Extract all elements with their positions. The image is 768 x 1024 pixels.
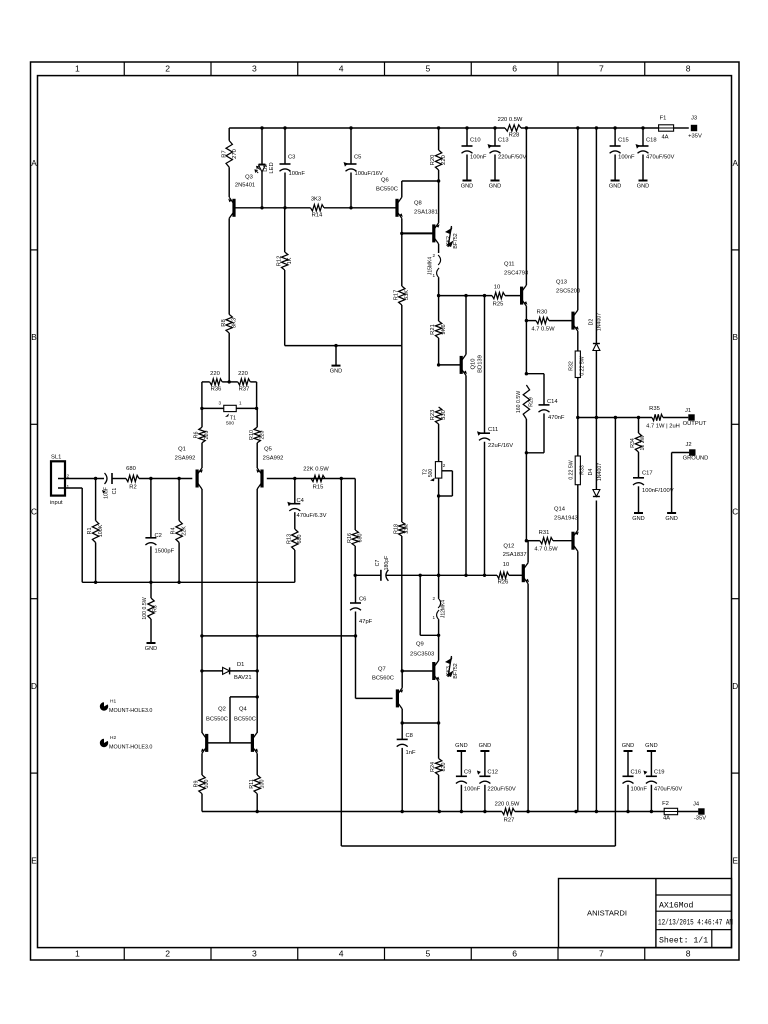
svg-text:100K: 100K [98, 524, 104, 537]
svg-text:100nF: 100nF [289, 171, 306, 177]
svg-text:R13: R13 [286, 534, 292, 544]
svg-text:180pF: 180pF [384, 556, 390, 571]
svg-text:R33: R33 [580, 465, 586, 475]
svg-text:10 2W: 10 2W [640, 435, 646, 450]
svg-text:BAV21: BAV21 [234, 675, 252, 681]
svg-text:1500pF: 1500pF [155, 549, 175, 555]
svg-text:220 0.5W: 220 0.5W [498, 117, 523, 123]
svg-text:680: 680 [358, 534, 364, 543]
svg-text:R21: R21 [430, 324, 436, 335]
svg-text:220uF/50V: 220uF/50V [487, 787, 515, 793]
svg-text:C8: C8 [406, 733, 413, 739]
svg-text:R7: R7 [222, 150, 228, 157]
svg-text:2: 2 [443, 463, 446, 468]
svg-text:2SC3503: 2SC3503 [410, 652, 434, 658]
svg-text:Q3: Q3 [245, 175, 253, 181]
svg-text:GND: GND [461, 184, 473, 190]
svg-text:B: B [732, 333, 738, 342]
svg-text:Q2: Q2 [218, 707, 226, 713]
svg-text:C2: C2 [155, 533, 162, 539]
svg-text:0.22 5W: 0.22 5W [569, 460, 575, 479]
svg-text:A: A [31, 159, 37, 168]
svg-text:160 0.5W: 160 0.5W [516, 391, 522, 413]
svg-text:Q14: Q14 [554, 507, 566, 513]
svg-text:Q8: Q8 [414, 201, 422, 207]
svg-text:R31: R31 [539, 530, 550, 536]
svg-text:BC550C: BC550C [376, 187, 398, 193]
svg-text:AX16Mod: AX16Mod [659, 901, 693, 911]
svg-text:4.7 0.5W: 4.7 0.5W [531, 327, 555, 333]
svg-text:1K: 1K [287, 257, 293, 264]
svg-text:Q5: Q5 [264, 447, 272, 453]
svg-text:680: 680 [297, 535, 303, 544]
svg-text:3K3: 3K3 [231, 318, 237, 328]
svg-text:12/13/2015 4:46:47 AM: 12/13/2015 4:46:47 AM [658, 920, 733, 928]
svg-text:GND: GND [145, 646, 157, 652]
svg-text:GND: GND [632, 516, 644, 522]
svg-text:R11: R11 [249, 779, 255, 789]
svg-text:22uF/16V: 22uF/16V [488, 443, 513, 449]
svg-text:4A: 4A [661, 135, 668, 141]
svg-text:220: 220 [259, 431, 265, 440]
svg-text:100: 100 [259, 780, 265, 789]
svg-text:100: 100 [204, 780, 210, 789]
svg-text:7: 7 [599, 949, 604, 959]
svg-text:5: 5 [425, 949, 430, 959]
svg-text:BC550C: BC550C [206, 717, 228, 723]
svg-text:R36: R36 [211, 387, 222, 393]
svg-text:SL1: SL1 [51, 455, 61, 461]
svg-text:2SA992: 2SA992 [263, 456, 284, 462]
svg-text:R27: R27 [504, 818, 515, 824]
svg-text:330: 330 [441, 410, 447, 420]
svg-text:100nF: 100nF [464, 787, 481, 793]
svg-text:3: 3 [252, 64, 257, 74]
svg-text:C3: C3 [288, 155, 295, 161]
svg-text:R18: R18 [394, 524, 400, 534]
svg-text:1: 1 [67, 484, 70, 490]
svg-text:220: 220 [210, 371, 220, 377]
svg-text:R10: R10 [249, 430, 255, 440]
svg-text:C16: C16 [631, 770, 642, 776]
svg-text:R6: R6 [194, 432, 200, 439]
svg-text:6: 6 [512, 949, 517, 959]
svg-text:470uF/50V: 470uF/50V [654, 787, 682, 793]
svg-text:8: 8 [686, 949, 691, 959]
svg-text:MOUNT-HOLE3.0: MOUNT-HOLE3.0 [109, 745, 152, 751]
svg-text:C5: C5 [354, 155, 361, 161]
svg-text:2N5401: 2N5401 [235, 183, 255, 189]
svg-text:Q13: Q13 [556, 280, 567, 286]
svg-text:220: 220 [238, 371, 248, 377]
svg-text:2: 2 [432, 596, 435, 601]
svg-text:R25: R25 [493, 302, 504, 308]
svg-text:C14: C14 [547, 399, 558, 405]
svg-text:1N4007: 1N4007 [597, 463, 603, 481]
svg-text:+35V: +35V [688, 134, 702, 140]
svg-text:C18: C18 [646, 138, 657, 144]
svg-text:33K: 33K [404, 524, 410, 534]
svg-text:A: A [732, 159, 738, 168]
svg-text:R14: R14 [312, 213, 323, 219]
svg-text:100nF: 100nF [470, 155, 487, 161]
svg-text:-35V: -35V [694, 816, 706, 822]
svg-text:R17: R17 [394, 290, 400, 301]
svg-text:GND: GND [645, 743, 657, 749]
svg-text:2SA1943: 2SA1943 [554, 516, 578, 522]
svg-text:R15: R15 [313, 485, 324, 491]
svg-text:R3: R3 [153, 605, 159, 612]
svg-text:D2: D2 [588, 319, 594, 326]
svg-text:2SC4793: 2SC4793 [504, 271, 528, 277]
svg-text:R29: R29 [529, 397, 535, 407]
svg-text:KK3: KK3 [446, 666, 452, 676]
svg-text:100uF/16V: 100uF/16V [355, 171, 383, 177]
svg-text:C: C [732, 508, 738, 517]
svg-text:J12MK4: J12MK4 [441, 600, 447, 619]
svg-text:GND: GND [479, 743, 491, 749]
svg-text:F1: F1 [660, 116, 667, 122]
svg-text:5: 5 [425, 64, 430, 74]
svg-text:R9: R9 [194, 781, 200, 788]
svg-text:Q6: Q6 [381, 178, 389, 184]
svg-text:GND: GND [665, 516, 677, 522]
svg-text:100 0.5W: 100 0.5W [142, 597, 148, 619]
svg-text:33K: 33K [404, 290, 410, 300]
svg-text:E: E [31, 856, 37, 865]
svg-text:C13: C13 [498, 138, 509, 144]
svg-text:BC560C: BC560C [372, 676, 394, 682]
svg-text:MOUNT-HOLE3.0: MOUNT-HOLE3.0 [109, 708, 152, 714]
svg-text:C11: C11 [488, 427, 498, 433]
svg-text:R23: R23 [430, 410, 436, 421]
svg-text:GND: GND [609, 184, 621, 190]
svg-text:R4: R4 [171, 528, 177, 535]
svg-text:680: 680 [126, 466, 136, 472]
svg-text:Q12: Q12 [503, 544, 514, 550]
svg-text:H2: H2 [110, 735, 116, 741]
svg-text:820: 820 [441, 763, 447, 772]
svg-text:J3: J3 [691, 116, 697, 122]
svg-text:J15MK4: J15MK4 [428, 257, 434, 276]
svg-text:1N4007: 1N4007 [596, 313, 602, 331]
svg-text:220 0.5W: 220 0.5W [495, 802, 520, 808]
svg-text:2: 2 [165, 64, 170, 74]
svg-text:220: 220 [204, 431, 210, 440]
svg-text:C12: C12 [487, 770, 498, 776]
svg-text:D: D [31, 682, 37, 691]
svg-text:R32: R32 [569, 361, 575, 371]
svg-text:R12: R12 [277, 256, 283, 267]
svg-text:C6: C6 [359, 597, 366, 603]
svg-text:500: 500 [226, 421, 234, 427]
svg-text:F2: F2 [662, 801, 669, 807]
svg-text:D1: D1 [237, 662, 244, 668]
svg-text:Q7: Q7 [378, 667, 386, 673]
svg-text:R37: R37 [239, 387, 250, 393]
svg-text:R34: R34 [630, 438, 636, 448]
svg-text:C7: C7 [375, 560, 381, 567]
svg-text:220uF/50V: 220uF/50V [498, 155, 526, 161]
svg-text:B: B [31, 333, 37, 342]
svg-text:D4: D4 [588, 469, 594, 476]
svg-text:4.7 0.5W: 4.7 0.5W [534, 547, 558, 553]
svg-text:4.7 1W | 2uH: 4.7 1W | 2uH [646, 424, 680, 430]
svg-text:BC550C: BC550C [234, 717, 256, 723]
svg-text:GROUND: GROUND [683, 456, 709, 462]
svg-text:10uF: 10uF [104, 487, 110, 499]
svg-text:1: 1 [75, 949, 80, 959]
svg-text:BF752: BF752 [453, 233, 459, 248]
svg-text:100nF: 100nF [631, 787, 648, 793]
svg-text:R24: R24 [430, 762, 436, 772]
svg-text:2SA1837: 2SA1837 [503, 552, 527, 558]
svg-text:GND: GND [330, 369, 342, 375]
svg-text:2SA992: 2SA992 [175, 456, 196, 462]
svg-text:22K 0.5W: 22K 0.5W [303, 467, 329, 473]
svg-text:R35: R35 [649, 406, 660, 412]
svg-text:10: 10 [494, 285, 500, 291]
svg-text:C15: C15 [618, 138, 629, 144]
svg-text:220: 220 [441, 155, 447, 165]
svg-text:Sheet: 1/1: Sheet: 1/1 [659, 936, 708, 946]
svg-text:1nF: 1nF [406, 750, 416, 756]
svg-text:Q1: Q1 [178, 447, 186, 453]
svg-text:270: 270 [232, 149, 238, 159]
svg-text:J2: J2 [685, 442, 691, 448]
svg-text:R26: R26 [498, 580, 509, 586]
svg-text:1: 1 [239, 401, 242, 406]
svg-text:4: 4 [339, 64, 344, 74]
svg-text:R16: R16 [347, 533, 353, 543]
svg-text:3: 3 [252, 949, 257, 959]
svg-text:0.22 5W: 0.22 5W [580, 356, 586, 375]
svg-text:R2: R2 [129, 485, 136, 491]
svg-text:GND: GND [489, 184, 501, 190]
svg-text:9K6: 9K6 [441, 324, 447, 334]
svg-text:4: 4 [339, 949, 344, 959]
svg-text:Q9: Q9 [416, 642, 424, 648]
svg-text:470nF: 470nF [548, 415, 565, 421]
svg-text:Q11: Q11 [504, 262, 515, 268]
svg-text:R30: R30 [537, 310, 548, 316]
svg-text:C17: C17 [642, 471, 653, 477]
svg-text:J4: J4 [693, 802, 700, 808]
svg-text:C4: C4 [297, 498, 305, 504]
svg-text:C1: C1 [112, 488, 118, 495]
svg-text:2: 2 [165, 949, 170, 959]
svg-text:47pF: 47pF [359, 619, 373, 625]
svg-text:R28: R28 [509, 133, 520, 139]
svg-text:ANISTARDI: ANISTARDI [587, 909, 627, 918]
svg-text:GND: GND [455, 743, 467, 749]
svg-text:E: E [732, 856, 738, 865]
svg-text:2SA1381: 2SA1381 [414, 210, 438, 216]
svg-text:3K3: 3K3 [311, 197, 321, 203]
svg-text:C9: C9 [464, 770, 471, 776]
svg-text:100nF: 100nF [618, 155, 635, 161]
svg-text:R8: R8 [221, 319, 227, 326]
svg-text:6: 6 [512, 64, 517, 74]
svg-text:22K: 22K [181, 526, 187, 536]
svg-text:2SC5200: 2SC5200 [556, 289, 580, 295]
svg-text:7: 7 [599, 64, 604, 74]
svg-text:100nF/100V: 100nF/100V [642, 488, 674, 494]
svg-text:BF752: BF752 [453, 663, 459, 678]
svg-text:3: 3 [218, 401, 221, 406]
svg-text:C19: C19 [654, 770, 665, 776]
svg-text:H1: H1 [110, 699, 116, 705]
svg-text:470uF/6.3V: 470uF/6.3V [297, 513, 327, 519]
svg-text:1: 1 [75, 64, 80, 74]
svg-text:4A: 4A [663, 816, 670, 822]
svg-text:10: 10 [503, 562, 509, 568]
svg-text:input: input [50, 500, 63, 506]
svg-text:C: C [31, 508, 37, 517]
svg-text:470uF/50V: 470uF/50V [646, 155, 674, 161]
svg-text:Q4: Q4 [239, 707, 248, 713]
svg-text:LED: LED [269, 162, 275, 173]
svg-text:KK2: KK2 [446, 236, 452, 246]
svg-text:D: D [732, 682, 738, 691]
svg-text:GND: GND [637, 184, 649, 190]
svg-text:Q10: Q10 [471, 359, 477, 370]
svg-text:BD139: BD139 [478, 355, 484, 373]
svg-text:C10: C10 [470, 138, 481, 144]
svg-text:R1: R1 [87, 528, 93, 535]
svg-text:8: 8 [686, 64, 691, 74]
svg-text:R20: R20 [430, 155, 436, 166]
svg-text:500: 500 [428, 469, 434, 478]
svg-text:J1: J1 [685, 408, 691, 414]
svg-text:GND: GND [622, 743, 634, 749]
svg-text:OUTPUT: OUTPUT [683, 421, 707, 427]
svg-text:1: 1 [432, 615, 435, 620]
